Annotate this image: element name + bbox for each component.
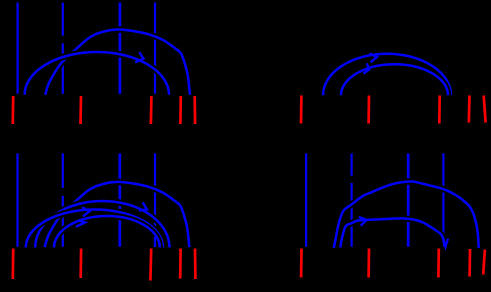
arrow on arc BR-inner (mid): [359, 217, 367, 226]
tick BLr1: [11, 249, 14, 280]
spike BR4: [442, 153, 444, 246]
tick TLr4: [179, 96, 182, 124]
arc BR-inner casing: [340, 218, 444, 247]
arc BL-4 casing: [54, 216, 160, 247]
arrow on arc BL-4: [76, 220, 85, 227]
tick BRr2: [367, 249, 370, 278]
top-left red ticks (rhythm 2): [13, 96, 195, 124]
top-right red ticks: [301, 96, 486, 124]
spike BR2 (lower): [351, 183, 353, 247]
spike BL2 (lower): [62, 196, 64, 247]
arrow on arc TR-outer: [370, 53, 378, 62]
arc BR-inner: [340, 218, 444, 247]
arc BL-O: [45, 182, 190, 247]
arc TR-outer: [323, 54, 451, 96]
tick TLr3: [150, 96, 153, 124]
bottom-left red ticks: [13, 249, 196, 281]
spike TL2 (lower): [62, 43, 64, 93]
tick BLr3: [149, 249, 153, 281]
arrow on arc BL-3: [82, 207, 89, 216]
spike BL3: [118, 153, 121, 246]
tick BLr2: [79, 249, 82, 279]
spike BR2 (upper): [351, 153, 353, 175]
tick BLr4: [179, 249, 182, 279]
arc BL-2: [35, 201, 169, 247]
arrow on arc TL-inner: [135, 52, 143, 62]
spike BL4 lower segment repaint: [154, 237, 156, 247]
spike TL3: [119, 3, 122, 94]
tick BRr5 (slanted): [483, 250, 485, 275]
arc BL-3 casing: [26, 210, 163, 248]
tick TRr3: [438, 96, 441, 124]
arc BL-4: [54, 216, 160, 247]
spike TL2 (upper): [62, 3, 64, 36]
spike BL4: [154, 153, 156, 246]
spike BR3: [407, 153, 410, 246]
tick TRr5 (slanted): [484, 96, 486, 123]
tick TLr5: [193, 96, 196, 124]
spike BL1: [16, 153, 18, 246]
tick TLr1: [11, 96, 14, 124]
arc BL-O casing: [45, 182, 190, 247]
arc TL-outer: [45, 29, 190, 94]
arc TR-outer casing: [323, 54, 451, 96]
spike TL1: [17, 3, 19, 94]
spike BL2 (upper): [62, 153, 64, 187]
arc BL-2 casing: [35, 201, 169, 247]
arc TL-outer casing: [45, 29, 190, 94]
tick BRr1: [300, 249, 303, 278]
bottom-right red ticks: [301, 249, 485, 278]
spike BR1: [305, 153, 307, 246]
arc TR-inner casing: [341, 64, 448, 95]
tick TRr2: [367, 96, 370, 124]
arrow at arc BR-inner end: [443, 238, 448, 247]
arc BR-outer: [334, 181, 479, 248]
tick TLr2: [79, 96, 82, 124]
arc TL-inner casing: [25, 52, 169, 95]
arc BR-outer casing: [334, 181, 479, 248]
arrow on arc BL-2: [139, 202, 147, 210]
spike TL4: [154, 3, 156, 94]
arc BL-3: [26, 210, 163, 248]
tick BRr3: [437, 249, 440, 278]
arrow on arc TR-inner: [364, 63, 370, 73]
tick TRr1: [300, 96, 303, 124]
tick BRr4: [468, 249, 471, 277]
tick BLr5: [194, 249, 197, 280]
arc TR-inner: [341, 64, 448, 95]
arc TL-inner: [25, 52, 169, 95]
tick TRr4: [467, 96, 470, 123]
